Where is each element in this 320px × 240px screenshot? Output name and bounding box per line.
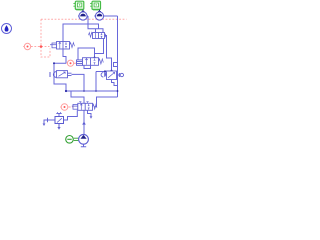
wire C3 right port down [105,36,112,72]
node manifold left dot [65,90,67,92]
valve V2 spring [93,104,97,109]
bleed valve B1 button [56,112,61,116]
wire gauge C2 to right bus [104,15,118,17]
drain arrowhead [43,124,46,127]
node manifold right dot [117,90,119,92]
wire supply riser [83,110,85,134]
pilot line gauge G1 branch [31,46,50,48]
gauge G2 [67,60,77,66]
regulator R1 left coupling [101,73,106,77]
wire B1 left with tick [44,120,55,124]
wire manifold lower left [71,91,84,103]
valve V3 spring [99,59,104,64]
valve C3 body [93,33,105,39]
node V3 top junction [93,57,95,59]
wire V2 bottom left to bleed valve [64,110,77,120]
wire V2 exhaust right [88,110,92,116]
pilot line (red dashed) main run [31,19,127,57]
start switch (green) [66,136,79,144]
valve C3 spring [89,33,93,38]
wire left loop [54,63,66,91]
node left loop dot [53,62,55,64]
exhaust arrowhead right [90,116,93,119]
wire gauge C1 branch rectangle [88,16,103,33]
wire V4 to manifold [72,74,85,91]
bleed valve B1 exhaust [58,124,60,128]
right bus wire [117,16,119,97]
wire R1 left drop to manifold [95,72,97,92]
pressure sensor S1 [73,1,84,12]
valve V1 spring [70,43,75,48]
bleed valve B1 body [55,117,64,124]
valve V2 top port ticks [79,102,88,104]
valve V2 body [78,103,93,110]
valve V3 pilot actuator [77,60,83,65]
valve V3 body [83,58,99,66]
coupling V4 arc [53,72,56,78]
wire manifold top [66,90,118,92]
coupling V4 left tick [49,72,51,77]
wire C3 left top port [95,29,97,33]
wire R1 bottom to bus [112,80,118,86]
gauge G3 [60,104,72,111]
valve V1 body [57,42,70,50]
regulator R1 body [107,71,117,80]
gauge C2 [94,12,104,20]
compressor P1 [79,134,89,146]
R1 right port with plug [117,73,120,77]
wire C3 bottom port to V3 [95,39,104,54]
wire V1 bottom to node [63,49,66,63]
wire V1 top run [63,24,99,42]
pilot junction dot [40,45,43,48]
gauge G1 [23,43,32,49]
check valve V4 body [57,71,68,78]
wire R1 left port [96,71,105,73]
lubricator drop indicator icon [2,24,12,34]
valve V1 pilot actuator [50,43,57,48]
valve V3 exhaust hook [84,65,91,68]
valve V2 pilot actuator [72,104,78,109]
wire V2 right spur [95,97,118,107]
bus jog loop [114,63,118,67]
check valve V4 right connector [68,73,72,75]
node manifold mid dots [83,90,85,92]
flow arrow on riser [82,121,86,124]
C3 right port tick [105,34,107,37]
wire V3 top U [78,48,95,60]
pressure sensor S2 [90,1,101,12]
gauge C1 [78,12,88,20]
regulator R1 top junction [110,70,112,72]
